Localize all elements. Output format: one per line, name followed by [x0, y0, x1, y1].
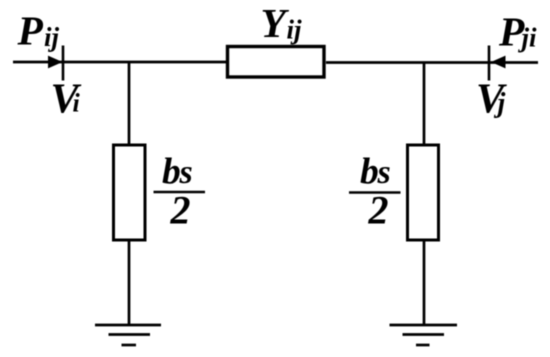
wire: right horizontal bus into node j: [326, 61, 538, 64]
wire: left horizontal bus into node i: [13, 61, 227, 64]
svg-text:s: s: [377, 154, 391, 191]
shunt susceptance box left (b_s/2): [114, 145, 146, 240]
wire: left shunt branch upper segment: [128, 62, 131, 145]
svg-text:2: 2: [170, 188, 191, 233]
wire: right shunt branch lower segment: [423, 240, 426, 325]
arrow P_ij (filled, points right): [48, 56, 63, 69]
ground symbol right: [390, 325, 458, 345]
svg-text:ij: ij: [287, 15, 303, 45]
series admittance box U: Y_ij: [228, 47, 325, 78]
svg-text:Y: Y: [261, 0, 290, 46]
label P_ij: [17, 8, 60, 54]
wire: left shunt branch lower segment: [128, 240, 131, 325]
svg-text:2: 2: [368, 188, 389, 233]
shunt susceptance box right (b_s/2): [408, 145, 439, 240]
label V_i: [51, 77, 82, 123]
label b_s/2 (right): [349, 152, 401, 233]
arrow P_ji (filled, points left): [491, 56, 506, 69]
svg-text:b: b: [360, 152, 379, 193]
power-flow tick mark at node j: [488, 46, 491, 81]
svg-text:b: b: [162, 152, 181, 193]
label b_s/2 (left): [154, 152, 206, 233]
svg-text:i: i: [73, 89, 81, 118]
power-flow tick mark at node i: [62, 46, 65, 81]
wire: right shunt branch upper segment: [423, 62, 426, 145]
svg-text:P: P: [17, 8, 44, 54]
label P_ji: [498, 9, 537, 55]
svg-text:ij: ij: [44, 22, 60, 52]
label V_j: [476, 77, 507, 123]
ground symbol left: [95, 325, 161, 345]
svg-text:s: s: [179, 154, 193, 191]
label Y_ij: [261, 0, 303, 46]
